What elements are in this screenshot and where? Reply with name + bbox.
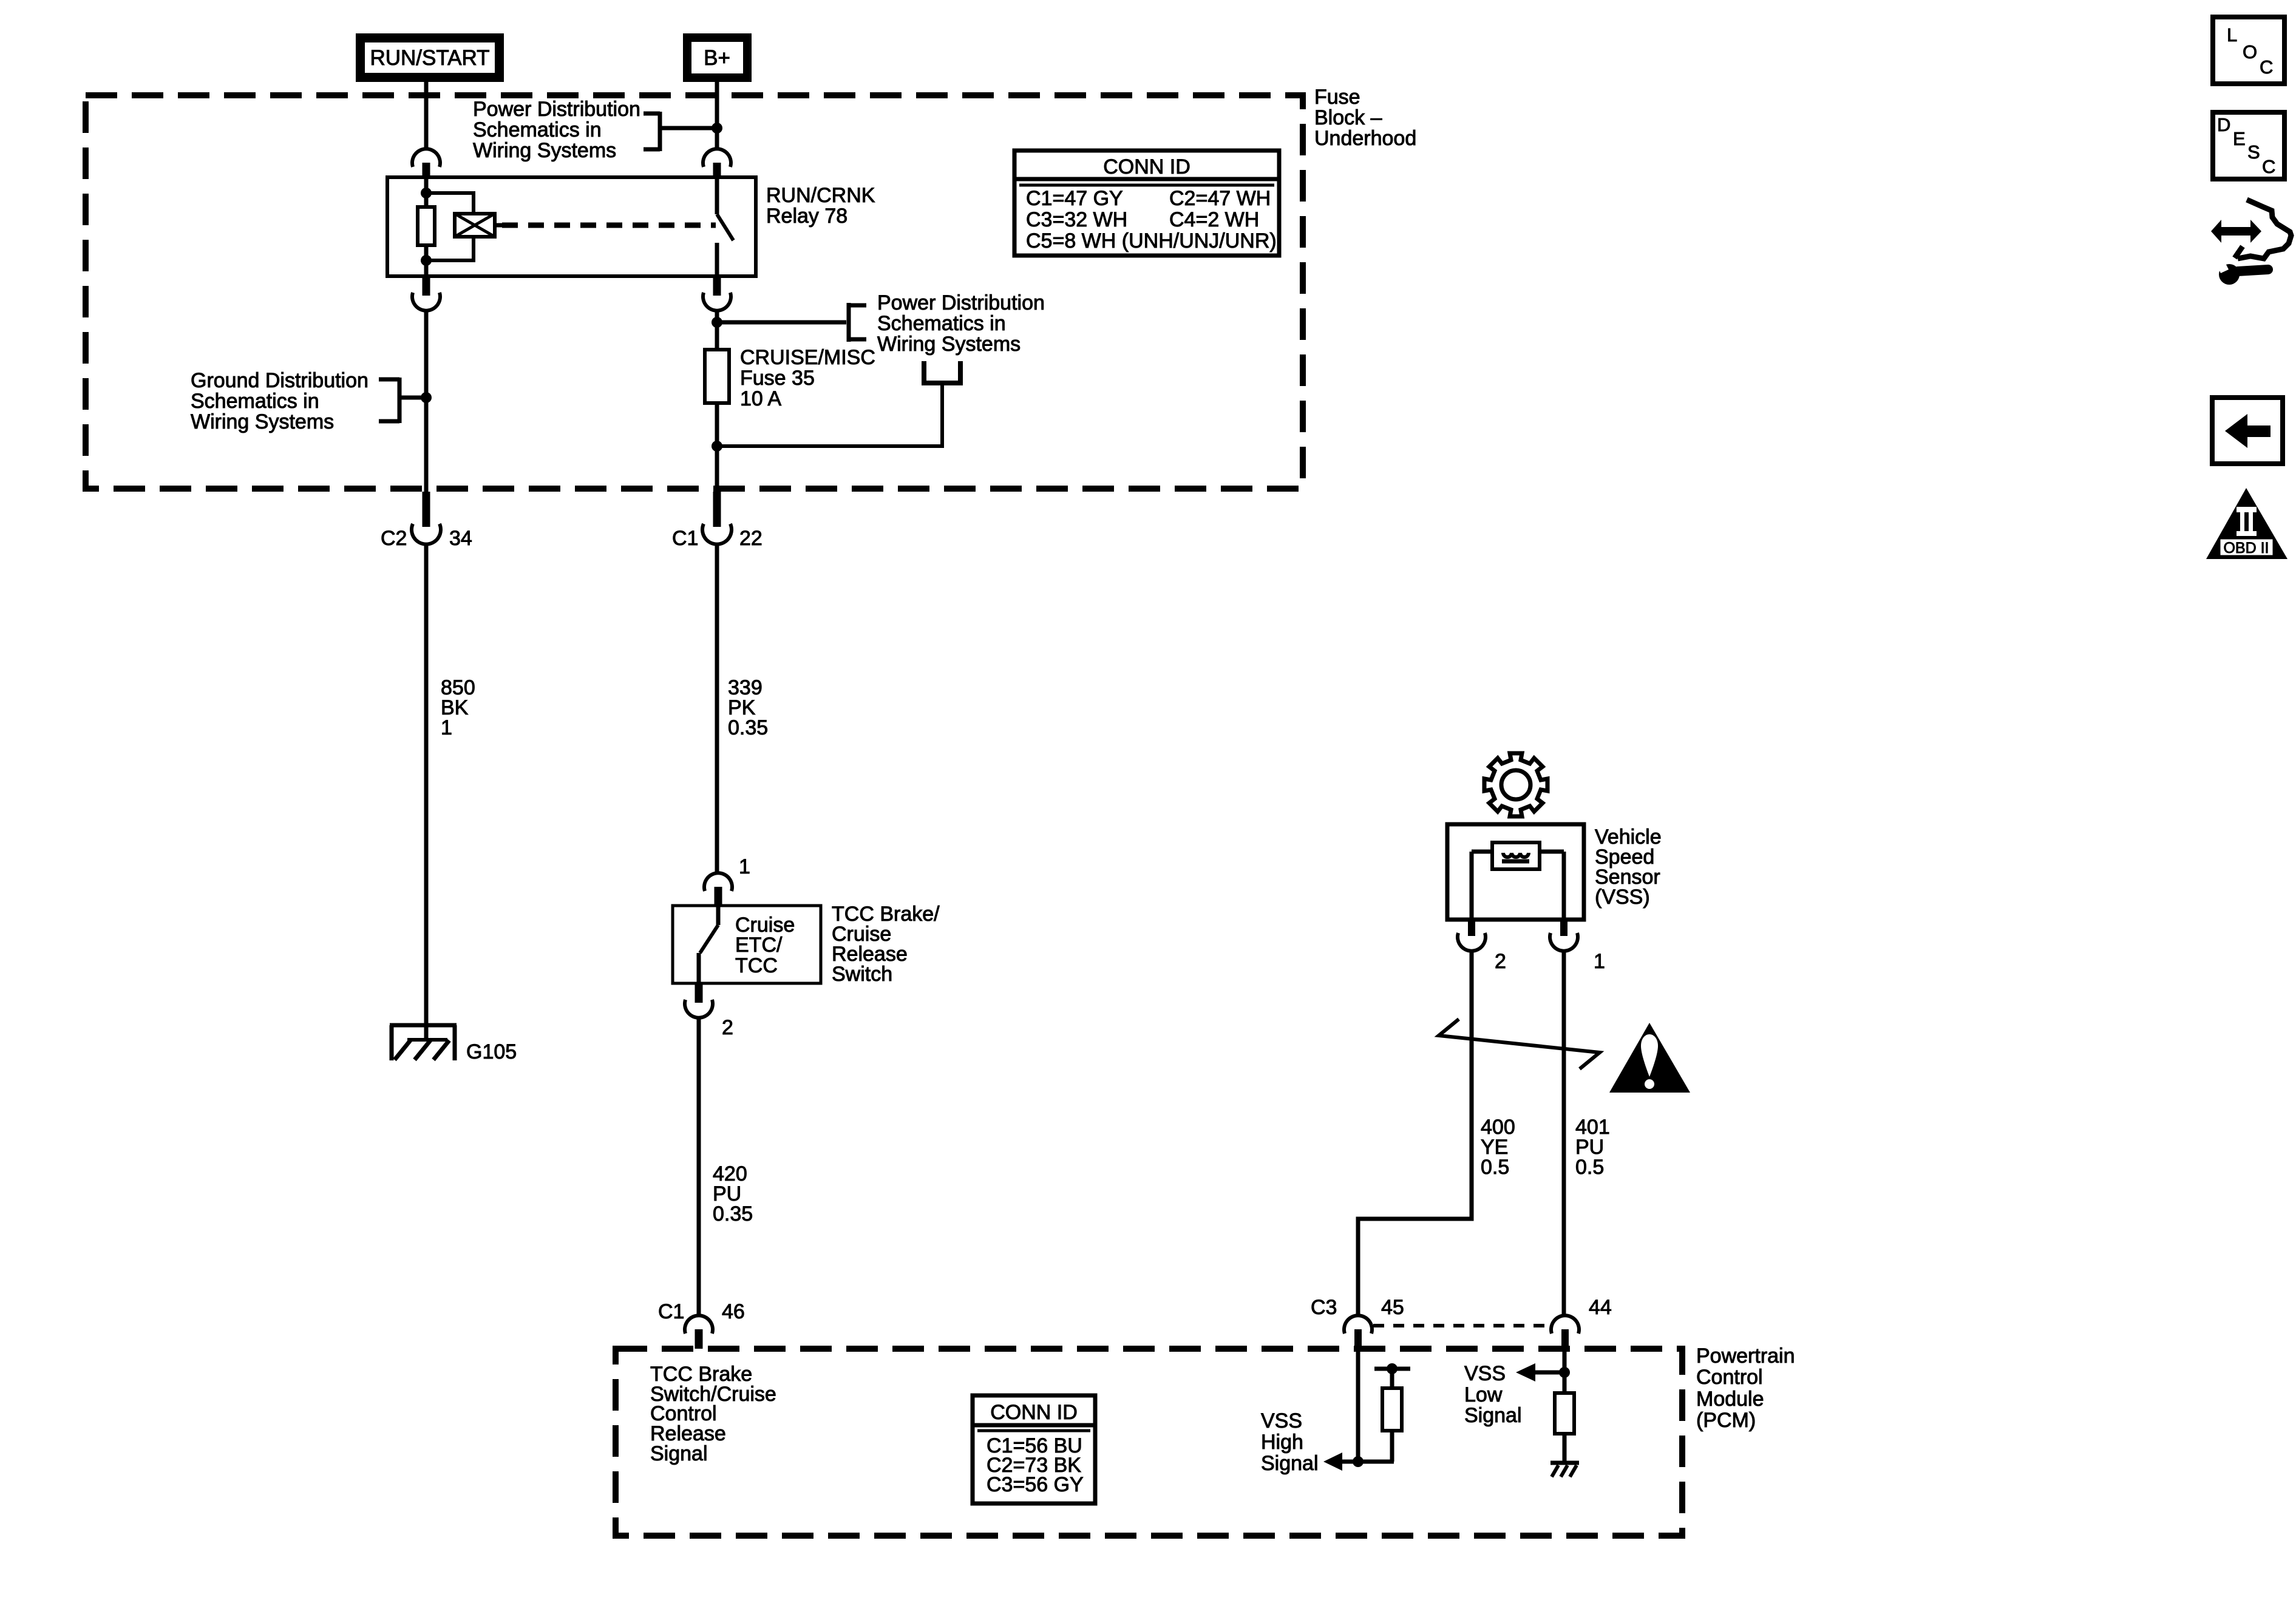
- relay switch blade: [717, 214, 733, 240]
- resistor inside relay: [418, 207, 435, 245]
- junction node below fuse: [712, 441, 722, 452]
- relay RUN/CRNK Relay 78 box: [387, 177, 756, 276]
- icon LOC box: [2213, 17, 2284, 84]
- wire 339 PK 0.35: [715, 543, 719, 873]
- svg-text:Block –: Block –: [1314, 106, 1382, 129]
- svg-text:CONN ID: CONN ID: [1103, 155, 1190, 178]
- terminal RUN/START: [356, 33, 504, 82]
- VSS pin left: [1468, 920, 1475, 936]
- svg-text:RUN/START: RUN/START: [370, 46, 489, 70]
- svg-text:C: C: [2262, 156, 2275, 177]
- relay bottom pin left: [423, 276, 430, 296]
- junction node top of coil branch: [421, 188, 432, 198]
- svg-text:VSS: VSS: [1261, 1409, 1302, 1432]
- svg-text:0.5: 0.5: [1481, 1156, 1509, 1179]
- svg-text:G105: G105: [466, 1040, 517, 1063]
- svg-text:C3=56 GY: C3=56 GY: [987, 1473, 1084, 1496]
- svg-text:Fuse 35: Fuse 35: [740, 367, 815, 390]
- svg-text:Relay 78: Relay 78: [766, 205, 847, 228]
- wire 850 BK 1: [424, 543, 429, 1039]
- gear icon above VSS: [1484, 753, 1547, 816]
- VSS low signal line with arrow: [1535, 1371, 1564, 1375]
- bracket (power distribution u-shape): [922, 361, 926, 385]
- svg-text:C4=2 WH: C4=2 WH: [1169, 208, 1259, 231]
- icon DESC box: [2213, 112, 2284, 179]
- svg-text:1: 1: [1594, 950, 1605, 973]
- icon OBD II triangle: [2206, 488, 2288, 559]
- svg-text:(PCM): (PCM): [1696, 1409, 1756, 1432]
- svg-text:TCC: TCC: [735, 954, 778, 977]
- resistor (VSS low): [1555, 1393, 1574, 1434]
- svg-text:1: 1: [739, 855, 750, 878]
- svg-text:Fuse: Fuse: [1314, 86, 1360, 109]
- wire C3-45 into PCM: [1356, 1349, 1360, 1460]
- connector arc below relay left: [412, 293, 440, 311]
- relay coil (box with X): [455, 214, 495, 237]
- resistor (VSS high pullup): [1382, 1388, 1402, 1431]
- svg-text:Control: Control: [1696, 1366, 1763, 1389]
- svg-text:Signal: Signal: [1261, 1452, 1319, 1475]
- branch to power distribution bracket (second): [717, 320, 846, 325]
- connector C1 arc: [702, 524, 732, 544]
- svg-text:D: D: [2217, 114, 2230, 135]
- svg-text:Low: Low: [1464, 1383, 1503, 1406]
- svg-text:Signal: Signal: [650, 1442, 708, 1465]
- svg-text:Power Distribution: Power Distribution: [473, 98, 640, 121]
- svg-text:Powertrain: Powertrain: [1696, 1344, 1795, 1368]
- connector arc into relay (left): [412, 149, 440, 167]
- svg-text:C1: C1: [658, 1300, 684, 1323]
- fuse block exit pin right: [713, 492, 721, 527]
- connector C2 arc: [412, 524, 441, 544]
- fuse block underhood dashed outline: [86, 95, 1303, 489]
- ground G105: [390, 1023, 457, 1028]
- PCM dashed outline: [616, 1349, 1682, 1536]
- svg-text:C3=32 WH: C3=32 WH: [1026, 208, 1127, 231]
- svg-text:22: 22: [739, 527, 763, 550]
- svg-text:2: 2: [722, 1016, 733, 1039]
- svg-text:0.35: 0.35: [713, 1202, 753, 1225]
- bracket (power distribution reference): [658, 112, 662, 151]
- svg-text:C: C: [2260, 56, 2273, 78]
- svg-text:Switch: Switch: [832, 963, 892, 986]
- svg-text:C1=47 GY: C1=47 GY: [1026, 187, 1123, 210]
- wire into relay coil branch: [424, 177, 429, 209]
- svg-text:Schematics in: Schematics in: [191, 390, 319, 413]
- svg-text:0.35: 0.35: [728, 716, 768, 739]
- wire from coil bottom back to main: [426, 237, 474, 260]
- VSS pickup coil box: [1492, 842, 1540, 869]
- svg-text:O: O: [2243, 41, 2257, 63]
- svg-text:Ground Distribution: Ground Distribution: [191, 369, 369, 392]
- svg-text:0.5: 0.5: [1575, 1156, 1604, 1179]
- connector arc pin 2: [685, 1000, 713, 1018]
- wire from RUN/START down: [424, 82, 429, 149]
- connector arc pin 1: [704, 873, 732, 891]
- relay switch contact: [715, 177, 719, 214]
- warning triangle: [1609, 1023, 1690, 1093]
- wire left column inside fuse block: [424, 311, 429, 493]
- svg-text:45: 45: [1381, 1296, 1404, 1319]
- CONN ID table (fuse block): [1014, 151, 1279, 256]
- wire branch to power distribution bracket: [660, 126, 717, 131]
- wire B+ column above fuse: [715, 311, 719, 350]
- svg-text:Wiring Systems: Wiring Systems: [877, 333, 1021, 356]
- coil to dash solid stub: [495, 223, 503, 228]
- connector arc into relay (right): [703, 149, 731, 167]
- svg-text:CRUISE/MISC: CRUISE/MISC: [740, 346, 875, 369]
- icon back arrow box: [2212, 398, 2283, 464]
- switch blade inside cruise box: [716, 906, 721, 925]
- svg-text:46: 46: [722, 1300, 745, 1323]
- bracket (ground distribution reference): [398, 378, 402, 423]
- VSS high signal line with arrow: [1341, 1460, 1394, 1464]
- svg-text:Wiring Systems: Wiring Systems: [191, 410, 334, 433]
- wire 401 PU 0.5: [1562, 952, 1566, 1315]
- twisted pair crossing symbol: [1439, 1019, 1600, 1069]
- branch wire to UNH bracket: [717, 385, 942, 446]
- svg-text:Schematics in: Schematics in: [877, 312, 1006, 335]
- svg-text:RUN/CRNK: RUN/CRNK: [766, 184, 875, 207]
- svg-text:(VSS): (VSS): [1595, 886, 1650, 909]
- wire from B+ down: [715, 82, 719, 149]
- svg-text:L: L: [2227, 24, 2237, 46]
- svg-text:Module: Module: [1696, 1388, 1764, 1411]
- connector arc below relay right: [703, 293, 731, 311]
- svg-text:C2: C2: [381, 527, 407, 550]
- svg-text:C3: C3: [1311, 1296, 1337, 1319]
- internal branch T: [1374, 1367, 1410, 1371]
- chassis ground inside PCM: [1550, 1461, 1579, 1465]
- connector arc VSS 1: [1550, 933, 1578, 951]
- wire branch to relay coil: [426, 193, 474, 214]
- svg-text:Underhood: Underhood: [1314, 127, 1416, 150]
- svg-text:Schematics in: Schematics in: [473, 118, 602, 141]
- switch box Cruise ETC/TCC: [673, 906, 821, 983]
- terminal B+: [683, 33, 752, 82]
- svg-text:Power Distribution: Power Distribution: [877, 291, 1045, 314]
- relay bottom pin right: [713, 276, 721, 296]
- svg-text:C1: C1: [672, 527, 698, 550]
- svg-text:2: 2: [1495, 950, 1506, 973]
- wire 44 into PCM: [1563, 1349, 1567, 1393]
- wire 400 YE 0.5: [1358, 952, 1472, 1315]
- pickup wave symbol: [1503, 853, 1529, 857]
- bracket (power distribution second): [847, 303, 851, 342]
- svg-text:34: 34: [449, 527, 472, 550]
- svg-text:C5=8 WH (UNH/UNJ/UNR): C5=8 WH (UNH/UNJ/UNR): [1026, 229, 1277, 253]
- svg-text:S: S: [2247, 141, 2260, 163]
- fuse block exit pin left: [423, 492, 430, 527]
- switch bottom pin: [695, 983, 703, 1003]
- fuse CRUISE/MISC Fuse 35 10A: [705, 350, 729, 403]
- dashed actuation line from coil to switch: [502, 223, 716, 228]
- VSS pin right: [1560, 920, 1567, 936]
- connector arc C1 46: [685, 1315, 713, 1334]
- svg-text:VSS: VSS: [1464, 1362, 1506, 1385]
- svg-text:Wiring Systems: Wiring Systems: [473, 139, 616, 162]
- svg-text:44: 44: [1589, 1296, 1612, 1319]
- wire below fuse: [715, 403, 719, 493]
- svg-text:E: E: [2233, 128, 2246, 149]
- dotted connector line C3: [1373, 1324, 1550, 1327]
- svg-text:C2=47 WH: C2=47 WH: [1169, 187, 1271, 210]
- svg-text:High: High: [1261, 1431, 1303, 1454]
- junction node on B+ wire: [712, 123, 722, 134]
- VSS internal wires: [1472, 850, 1492, 854]
- junction node to ground distribution: [421, 392, 432, 403]
- link to bracket: [399, 396, 426, 400]
- wire 420 PU 0.35: [697, 1019, 701, 1315]
- CONN ID table (PCM): [973, 1395, 1095, 1503]
- wire below resistor: [424, 245, 429, 276]
- svg-text:Signal: Signal: [1464, 1404, 1522, 1427]
- connector arc C3 45: [1344, 1315, 1372, 1334]
- svg-text:CONN ID: CONN ID: [990, 1401, 1078, 1424]
- VSS sensor box: [1447, 824, 1584, 920]
- icon vehicle with wrench: [2238, 200, 2291, 259]
- junction node bottom of coil branch: [421, 255, 432, 266]
- svg-text:1: 1: [441, 716, 452, 739]
- svg-text:ETC/: ETC/: [735, 934, 783, 957]
- connector arc 44: [1551, 1315, 1579, 1334]
- connector arc VSS 2: [1458, 933, 1486, 951]
- svg-text:10 A: 10 A: [740, 387, 781, 410]
- svg-text:B+: B+: [704, 46, 730, 70]
- svg-text:OBD II: OBD II: [2223, 540, 2269, 557]
- junction node above fuse: [712, 317, 722, 328]
